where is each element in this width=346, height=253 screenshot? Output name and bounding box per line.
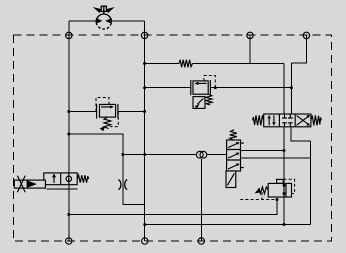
junction stack-valve line at x=284 bbox=[283, 149, 286, 152]
wire branch H2 (y=87.7) left of reducing valve bbox=[145, 87, 191, 89]
junction V2-H5 bbox=[143, 153, 146, 156]
wire branch H1 (y=63.5) right of spring to elbow bbox=[193, 63, 285, 65]
junction H2 end at x=291 bbox=[290, 86, 293, 89]
pump drive shaft and fan symbol on top bbox=[93, 6, 115, 15]
wire branch H4 (y=134) and vertical V4 with elbow to V2 bbox=[69, 134, 145, 204]
node F (bottom boundary test point x=144.8) bbox=[142, 238, 148, 244]
node B (top boundary test point x=144.6) bbox=[141, 32, 147, 38]
wire branch H5 (y=154.5) right of coupling to stack valve bbox=[207, 154, 227, 156]
wire valve bottom port right elbow to x=310.5 bbox=[291, 127, 311, 141]
wire branch H3 (y=111.5) right of valve bbox=[118, 111, 145, 113]
wire rail3 (y=224.5) bbox=[145, 224, 311, 226]
junction V1-rail2 bbox=[67, 213, 70, 216]
wire pump suction line left bbox=[69, 20, 97, 22]
wire vertical x=284 from valve bottom through relief valve to rail3 bbox=[283, 127, 285, 225]
junction V2-rail3 bbox=[143, 223, 146, 226]
wire vertical x=310.5 down to rail3 bbox=[310, 141, 312, 225]
junction V4-H5 bbox=[121, 153, 124, 156]
junction x=284 on rail3 bbox=[283, 223, 286, 226]
pilot lines (dashed) of compensator valve bbox=[96, 98, 118, 127]
junction V1-H3 bbox=[67, 110, 70, 113]
wire rail2 (y=214.5) with riser to relief drain bbox=[69, 200, 277, 215]
junction drain riser top bbox=[276, 198, 279, 201]
pressure compensator valve (left middle) bbox=[97, 104, 118, 131]
directional control valve 4/3 (right, spring centered) bbox=[253, 114, 322, 127]
wire branch H1 (y=63.5) left of spring bbox=[145, 63, 179, 65]
wire vertical x=291 down to valve top port bbox=[290, 63, 292, 114]
junction pilot tap on H2 bbox=[214, 86, 217, 89]
node A (top boundary test point x=68.8) bbox=[66, 32, 72, 38]
junction V2-H3 bbox=[143, 110, 146, 113]
junction V2-H2 bbox=[143, 86, 146, 89]
wire vertical from node at x=250 to H1 bbox=[249, 35, 251, 63]
junction relief valve lower port bbox=[283, 192, 286, 195]
quick coupling (two interlocked circles) bbox=[196, 151, 206, 158]
solenoid actuator with arrow bbox=[14, 176, 45, 193]
junction V2-H1 bbox=[143, 62, 146, 65]
wire vertical x=284 from H1 to valve top port bbox=[283, 64, 285, 115]
node G (bottom boundary test point x=201.3) bbox=[198, 238, 204, 244]
wire branch H2 (y=87.7) right of reducing valve bbox=[210, 87, 291, 89]
wire coupling drain vertical to bottom node bbox=[200, 159, 202, 241]
wire stack valve output to x=310.5 bbox=[241, 157, 311, 159]
pilot relief valve (bottom right) bbox=[255, 179, 292, 197]
wire vertical line V2 (x=144.6 from pump to bottom node) bbox=[144, 21, 146, 241]
junction relief valve upper port bbox=[283, 184, 286, 187]
node D (top boundary test point x=306.4) bbox=[303, 32, 309, 38]
wire vertical line V1 (x=68.8 from pump to bottom node) bbox=[68, 21, 70, 241]
wire pump delivery line right bbox=[111, 20, 144, 22]
wire stack valve output to x=284 bbox=[241, 150, 285, 152]
wire branch H3 (y=111.5) left of valve bbox=[69, 111, 97, 113]
pump P1 (circle, solid top arc, dashed bottom arc) bbox=[96, 14, 112, 29]
orifice restrictor on V4 bbox=[118, 180, 127, 190]
junction V1-H4 bbox=[67, 133, 70, 136]
wire branch H5 (y=154.5) left of coupling bbox=[123, 154, 196, 156]
spring (inline on branch H1) bbox=[179, 60, 193, 67]
wire from node x=306 down and left to x=291 bbox=[291, 35, 306, 63]
pressure reducing valve (upper middle) bbox=[191, 80, 212, 108]
wire under-plate of shutoff valve bbox=[47, 188, 78, 190]
node E (bottom boundary test point x=68.8) bbox=[66, 238, 72, 244]
pilot line (dashed) of reducing valve bbox=[204, 76, 215, 88]
node C (top boundary test point x=250) bbox=[247, 32, 253, 38]
solenoid shutoff valve (bottom left) bbox=[44, 173, 89, 185]
pilot lines (dashed) of relief valve bbox=[240, 179, 294, 199]
enclosure boundary (dashed) bbox=[13, 35, 331, 241]
sequence valve stack (middle right, spring on top) bbox=[226, 130, 244, 188]
